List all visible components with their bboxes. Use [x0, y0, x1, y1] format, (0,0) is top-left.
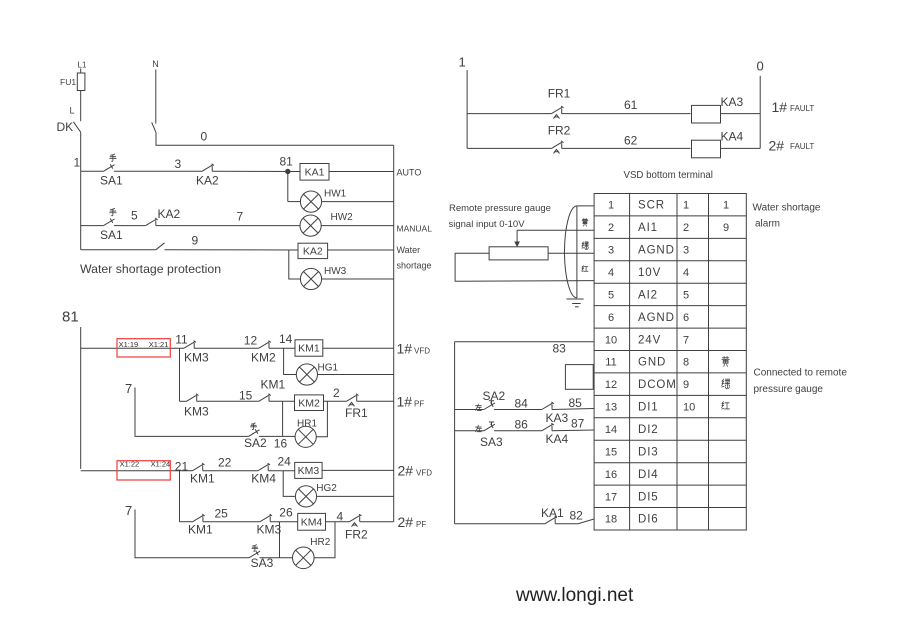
svg-text:1: 1	[459, 55, 466, 70]
svg-text:17: 17	[605, 491, 617, 503]
svg-text:KM3: KM3	[184, 350, 209, 364]
svg-text:KA3: KA3	[546, 411, 569, 425]
svg-text:1#: 1#	[397, 394, 413, 410]
wire feed rung 2PF	[179, 471, 181, 522]
wire node 9	[165, 249, 298, 251]
relay contact KA2 (rung2)	[146, 219, 157, 226]
svg-text:VSD bottom terminal: VSD bottom terminal	[624, 170, 713, 181]
svg-text:GND: GND	[638, 357, 666, 369]
wire node 84	[494, 409, 542, 411]
svg-text:KA2: KA2	[158, 207, 181, 221]
wire FR1 to bus	[357, 400, 394, 402]
svg-text:KA4: KA4	[546, 432, 569, 446]
contactor coil KM4	[298, 513, 326, 530]
wire node 7	[156, 225, 300, 227]
svg-text:KM3: KM3	[184, 404, 209, 418]
wire branch to HW3	[289, 250, 301, 279]
cable shield arc	[565, 206, 577, 298]
svg-text:KA2: KA2	[303, 246, 323, 258]
svg-text:Water shortage protection: Water shortage protection	[80, 262, 221, 276]
wire HR1 up to rung	[316, 401, 327, 437]
wire node 83	[455, 341, 594, 343]
svg-text:7: 7	[125, 503, 132, 518]
svg-text:KM4: KM4	[251, 471, 276, 485]
svg-text:2: 2	[608, 222, 614, 234]
wire left bus rung1-rung3	[80, 171, 82, 250]
wire rung 1PF left	[180, 400, 187, 402]
svg-text:85: 85	[569, 396, 583, 410]
svg-text:7: 7	[683, 334, 689, 346]
svg-text:VFD: VFD	[414, 346, 430, 355]
svg-text:6: 6	[608, 312, 614, 324]
wire node 86	[494, 430, 542, 432]
svg-text:DI4: DI4	[638, 469, 659, 481]
lamp HW2	[300, 215, 321, 236]
svg-text:signal input 0-10V: signal input 0-10V	[449, 219, 526, 230]
wire N to 0 line	[156, 133, 394, 146]
svg-text:2: 2	[683, 222, 689, 234]
wire SA3 rung left	[455, 430, 484, 432]
wire to HW1 lamp	[288, 201, 301, 203]
contactor coil KM2	[295, 395, 324, 411]
wire rung 1VFD	[81, 347, 184, 349]
wire node 3	[114, 170, 202, 172]
svg-text:14: 14	[605, 424, 617, 436]
svg-text:X1:22: X1:22	[120, 460, 140, 469]
svg-text:DI3: DI3	[638, 446, 659, 458]
svg-text:4: 4	[608, 267, 614, 279]
switch SA1 contact (auto)	[104, 165, 115, 172]
wire HW1 to bus	[322, 201, 394, 203]
svg-text:SCR: SCR	[638, 200, 665, 212]
contactor contact KM1 (rung 1PF)	[259, 395, 270, 402]
wire N lead	[155, 70, 157, 124]
thermal contact FR1	[347, 395, 358, 402]
svg-text:HR1: HR1	[297, 419, 317, 430]
lamp HG1	[296, 364, 317, 385]
switch SA1 contact (manual)	[104, 219, 115, 226]
jumper box GND-DCOM	[565, 365, 593, 390]
wire KM1 to bus	[323, 347, 394, 349]
wire rung3 left	[81, 249, 156, 251]
wiper arrow	[516, 230, 518, 243]
svg-text:KA2: KA2	[196, 174, 219, 188]
svg-text:KM1: KM1	[261, 378, 286, 392]
relay coil KA3	[692, 105, 721, 123]
wire rung 2VFD	[81, 470, 193, 472]
svg-text:2#: 2#	[398, 463, 414, 479]
svg-text:Water: Water	[397, 245, 421, 255]
svg-text:21: 21	[175, 459, 189, 473]
svg-text:HW3: HW3	[324, 266, 347, 277]
svg-text:MANUAL: MANUAL	[397, 224, 433, 234]
svg-text:AI1: AI1	[638, 222, 658, 234]
relay contact KA3 (table)	[542, 403, 553, 410]
wire shield to SCR	[577, 205, 594, 207]
svg-text:3: 3	[608, 245, 614, 257]
terminal box X1 lower	[117, 461, 170, 480]
svg-text:www.longi.net: www.longi.net	[515, 585, 634, 606]
svg-text:5: 5	[131, 208, 138, 222]
wire 85 to DI1	[552, 409, 594, 410]
svg-text:KM4: KM4	[301, 516, 323, 528]
contactor contact KM4 (rung 2VFD)	[258, 464, 269, 471]
svg-text:KM2: KM2	[251, 350, 276, 364]
svg-text:L1: L1	[78, 61, 87, 70]
svg-text:10: 10	[683, 402, 695, 414]
wire branch HG2	[283, 471, 295, 497]
svg-text:11: 11	[175, 333, 188, 347]
lamp HG2	[295, 486, 316, 507]
lamp HR2	[293, 547, 315, 569]
svg-text:16: 16	[605, 469, 617, 481]
svg-text:9: 9	[192, 234, 199, 248]
fuse FU1	[77, 73, 85, 91]
svg-text:X1:19: X1:19	[119, 340, 139, 349]
svg-text:16: 16	[274, 437, 288, 451]
svg-text:14: 14	[279, 332, 293, 346]
wire L1 lead	[80, 69, 82, 74]
wire node 61	[562, 113, 691, 115]
svg-text:11: 11	[605, 357, 616, 369]
wire 81 down to HW1	[287, 172, 289, 202]
wire DK down to rung1	[80, 132, 82, 171]
contactor coil KM3	[295, 462, 322, 478]
wire node5	[114, 225, 146, 227]
svg-text:1: 1	[683, 200, 689, 212]
relay coil KA4	[692, 140, 721, 158]
wire fault rung2 left	[467, 147, 551, 149]
wire KM3 to bus	[322, 469, 394, 471]
svg-text:1: 1	[74, 156, 81, 170]
relay contact KA1 (table)	[545, 517, 556, 524]
switch SA2 contact (table)	[484, 403, 495, 410]
svg-text:SA2: SA2	[244, 436, 267, 450]
wire HR2 up to rung	[314, 522, 335, 558]
wire 7 feed down 2	[135, 510, 249, 558]
svg-text:KA1: KA1	[541, 506, 564, 520]
svg-text:10V: 10V	[638, 267, 661, 279]
cable shield chord	[576, 206, 578, 298]
wire 87 to DI2	[552, 429, 594, 432]
wire HG1 to bus	[318, 374, 394, 376]
wire pot left to 10V	[455, 253, 594, 281]
svg-text:DI1: DI1	[638, 402, 659, 414]
wire 82 to DI6	[555, 519, 594, 524]
wire node 2	[324, 400, 347, 402]
contactor coil KM1	[295, 340, 323, 356]
svg-text:5: 5	[683, 289, 689, 301]
svg-text:KM2: KM2	[298, 397, 320, 409]
switch SA2 contact	[249, 430, 260, 437]
svg-text:3: 3	[175, 157, 182, 171]
svg-text:KA3: KA3	[721, 95, 744, 109]
svg-text:FAULT: FAULT	[790, 142, 814, 151]
switch SA3 contact	[249, 551, 260, 558]
wire SA3 to HR2	[260, 557, 293, 559]
wire wiper to AI1	[517, 229, 594, 231]
wire fault left bus	[466, 70, 468, 148]
wire node 26	[270, 521, 298, 523]
svg-text:pressure gauge: pressure gauge	[754, 384, 824, 395]
svg-text:AI2: AI2	[638, 289, 658, 301]
svg-text:FR2: FR2	[548, 123, 571, 137]
wire rung 2PF left	[180, 521, 193, 523]
wire left bus 81	[80, 327, 82, 469]
switch DK blade	[73, 122, 80, 132]
switch SA2 select label	[475, 404, 481, 410]
svg-text:81: 81	[62, 309, 79, 326]
thermal contact FR2 (fault)	[552, 142, 563, 149]
wire feed rung 1PF	[179, 348, 181, 401]
wire node 24	[268, 470, 295, 472]
svg-text:X1:24: X1:24	[151, 460, 171, 469]
wire color label green	[582, 242, 588, 250]
svg-text:KM1: KM1	[190, 471, 215, 485]
svg-text:KM3: KM3	[257, 523, 282, 537]
svg-text:15: 15	[605, 446, 617, 458]
thermal contact FR2	[350, 515, 361, 522]
svg-text:HW1: HW1	[324, 189, 347, 200]
wire rung1 left	[81, 170, 104, 172]
wire KA1 to bus	[329, 171, 394, 173]
svg-text:HR2: HR2	[310, 537, 330, 548]
wire node 15	[197, 400, 259, 402]
svg-text:L: L	[70, 106, 75, 116]
svg-text:87: 87	[571, 416, 585, 430]
wire fuse to DK	[80, 91, 82, 122]
svg-text:0: 0	[757, 59, 764, 74]
svg-text:24V: 24V	[638, 334, 661, 346]
svg-text:25: 25	[215, 506, 229, 520]
svg-text:shortage: shortage	[397, 261, 432, 271]
contactor contact KM1 (rung 2VFD)	[193, 464, 204, 471]
svg-text:AGND: AGND	[638, 245, 675, 257]
svg-text:VFD: VFD	[416, 469, 432, 478]
switch SA3 select label	[475, 425, 481, 431]
svg-text:9: 9	[683, 379, 689, 391]
relay coil KA1	[300, 164, 329, 181]
svg-text:1: 1	[608, 200, 614, 212]
wire branch HG1	[284, 348, 297, 374]
svg-text:81: 81	[280, 155, 294, 169]
svg-text:SA2: SA2	[483, 389, 506, 403]
svg-text:12: 12	[605, 379, 617, 391]
wire to node 81	[212, 170, 300, 172]
svg-text:7: 7	[125, 381, 132, 396]
svg-text:DI5: DI5	[638, 491, 659, 503]
svg-text:15: 15	[239, 389, 253, 403]
wire FR2 to bus	[360, 521, 394, 523]
wire right bus	[393, 145, 395, 521]
wire HW2 to bus	[321, 225, 394, 227]
relay contact KA2 (rung1)	[202, 165, 213, 172]
svg-text:2#: 2#	[769, 137, 785, 153]
wire fault rung1 left	[467, 113, 551, 115]
svg-text:1: 1	[723, 200, 729, 212]
svg-text:10: 10	[605, 334, 617, 346]
svg-text:DK: DK	[57, 120, 74, 134]
node 81 junction dot	[285, 169, 290, 174]
svg-text:5: 5	[608, 289, 614, 301]
svg-text:N: N	[152, 59, 159, 69]
lamp HW1	[300, 191, 321, 212]
svg-text:HW2: HW2	[331, 212, 354, 223]
svg-text:1#: 1#	[772, 99, 788, 115]
svg-text:9: 9	[723, 222, 729, 234]
svg-text:KA4: KA4	[721, 130, 744, 144]
svg-text:KA1: KA1	[305, 166, 325, 178]
wire node 62	[562, 147, 691, 149]
wire node 25	[203, 521, 260, 523]
svg-text:alarm: alarm	[755, 219, 780, 230]
lamp HR1	[295, 426, 316, 447]
svg-text:FAULT: FAULT	[790, 104, 814, 113]
svg-text:22: 22	[218, 455, 232, 469]
wire color label red	[582, 266, 588, 272]
svg-text:0: 0	[201, 130, 208, 144]
contactor contact KM3 (rung 1PF)	[187, 395, 198, 402]
svg-text:2#: 2#	[398, 514, 414, 530]
wire HG2 to bus	[317, 495, 394, 497]
svg-text:AGND: AGND	[638, 312, 675, 324]
svg-text:84: 84	[515, 396, 529, 410]
svg-text:PF: PF	[414, 400, 424, 409]
wire color label yellow	[582, 218, 588, 226]
wire KA1 rung left	[455, 523, 545, 525]
svg-text:HG2: HG2	[316, 483, 337, 494]
svg-text:13: 13	[605, 402, 617, 414]
svg-text:PF: PF	[416, 520, 426, 529]
svg-text:83: 83	[553, 341, 567, 355]
wire KA2coil to bus	[328, 249, 394, 251]
wire node 4	[326, 521, 350, 523]
wire fault right bus	[759, 76, 761, 149]
svg-text:SA1: SA1	[100, 228, 123, 242]
wire SA2 rung left	[455, 409, 484, 411]
svg-text:24: 24	[278, 454, 292, 468]
relay contact KA4 (table)	[542, 424, 553, 431]
ground symbol	[566, 298, 583, 300]
terminal box X1 upper	[117, 339, 170, 357]
thermal contact FR1 (fault)	[552, 107, 563, 114]
wire KA3 to bus	[721, 113, 761, 115]
wire node 22	[203, 470, 258, 472]
svg-text:DCOM: DCOM	[638, 379, 677, 391]
svg-text:86: 86	[515, 418, 529, 432]
switch SA3 contact (table)	[484, 424, 495, 431]
svg-text:62: 62	[624, 133, 638, 147]
terminal table VSD	[594, 194, 746, 531]
svg-text:KM1: KM1	[188, 523, 213, 537]
svg-text:Remote pressure gauge: Remote pressure gauge	[449, 203, 551, 214]
svg-text:FR1: FR1	[345, 406, 368, 420]
svg-text:82: 82	[570, 509, 584, 523]
svg-text:HG1: HG1	[318, 362, 339, 373]
svg-text:7: 7	[237, 210, 244, 224]
wire pot right to AGND	[548, 252, 594, 254]
contactor contact KM1 (rung 2PF)	[193, 515, 204, 522]
svg-text:DI6: DI6	[638, 514, 659, 526]
svg-text:26: 26	[279, 505, 293, 519]
svg-text:4: 4	[683, 267, 689, 279]
wire node 16	[259, 435, 295, 437]
svg-text:FU1: FU1	[60, 77, 76, 87]
svg-text:4: 4	[337, 509, 344, 523]
contactor contact KM2 (rung 1VFD)	[259, 342, 270, 349]
contactor contact KM3 (rung 1VFD)	[184, 342, 195, 349]
svg-text:SA3: SA3	[480, 435, 503, 449]
svg-text:Water shortage: Water shortage	[753, 203, 821, 214]
svg-text:18: 18	[605, 514, 617, 526]
switch N blade	[152, 122, 156, 132]
wire KA4 to bus	[721, 147, 761, 149]
svg-text:SA1: SA1	[100, 174, 123, 188]
wire 7 feed down	[135, 388, 249, 437]
svg-text:KM3: KM3	[298, 465, 320, 477]
wire branch junction 2PF	[279, 522, 281, 558]
svg-text:61: 61	[624, 98, 638, 112]
potentiometer body	[489, 247, 548, 260]
wire node 14	[269, 347, 295, 349]
svg-text:8: 8	[683, 357, 689, 369]
wire HW3 to bus	[322, 278, 394, 280]
svg-text:12: 12	[244, 334, 258, 348]
svg-text:1#: 1#	[397, 340, 413, 356]
wire mid left bus	[454, 342, 456, 524]
switch water-shortage contact	[156, 243, 165, 250]
svg-text:2: 2	[333, 386, 340, 400]
svg-text:6: 6	[683, 312, 689, 324]
svg-text:X1:21: X1:21	[149, 340, 169, 349]
svg-text:FR2: FR2	[345, 528, 368, 542]
svg-text:DI2: DI2	[638, 424, 659, 436]
svg-text:KM1: KM1	[298, 343, 320, 355]
wire branch junction 1PF	[282, 401, 284, 436]
svg-text:Connected to remote: Connected to remote	[754, 368, 848, 379]
lamp HW3	[300, 268, 321, 289]
wire rung2 left	[81, 225, 104, 227]
wire KM1 to KM2 coil	[269, 400, 295, 402]
svg-text:FR1: FR1	[548, 87, 571, 101]
svg-text:AUTO: AUTO	[397, 168, 422, 178]
relay coil KA2	[298, 243, 328, 258]
wire node 12	[194, 347, 259, 349]
contactor contact KM3 (rung 2PF)	[260, 515, 271, 522]
svg-text:3: 3	[683, 245, 689, 257]
